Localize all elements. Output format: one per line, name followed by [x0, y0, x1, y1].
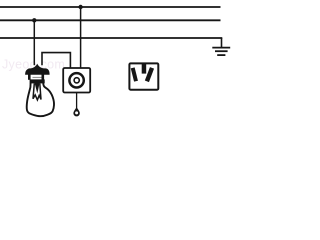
- lamp EL1 lead left: [33, 84, 34, 99]
- lamp EL1 filament: [33, 95, 41, 100]
- switch S1 outer ring: [69, 73, 83, 87]
- lamp EL1 holder cap: [25, 68, 49, 74]
- lamp EL1 lead right: [40, 84, 41, 100]
- lamp EL1 glass bulb: [27, 83, 54, 116]
- wire lamp neutral drop: [33, 20, 35, 65]
- wire switch live drop: [80, 7, 82, 69]
- switch S1 knob hole: [75, 111, 78, 114]
- wire L3 earth line: [0, 37, 222, 39]
- lamp EL1 screw side left: [28, 75, 31, 80]
- lamp EL1 screw side right: [41, 75, 44, 80]
- wire lamp to switch bridge: [42, 53, 70, 69]
- socket XS1 box: [129, 63, 158, 89]
- lamp EL1 screw band bottom: [30, 79, 45, 83]
- node A junction on L2: [32, 18, 36, 22]
- lamp EL1 screw thread line: [33, 76, 42, 78]
- socket XS1 right slot: [147, 68, 152, 81]
- socket XS1 left slot: [133, 68, 136, 81]
- switch S1 inner circle: [74, 78, 79, 83]
- lamp EL1 holder funnel: [30, 64, 45, 69]
- lamp EL1 stem: [35, 83, 40, 94]
- switch S1 box: [63, 68, 90, 93]
- ground: [212, 38, 230, 55]
- switch S1 pull cord: [76, 93, 78, 109]
- wire L2 neutral line: [0, 19, 221, 21]
- wire L1 live line: [0, 6, 221, 8]
- socket XS1 earth slot: [142, 63, 147, 73]
- node B junction on L1: [78, 5, 82, 9]
- switch S1 cord knob: [73, 107, 79, 116]
